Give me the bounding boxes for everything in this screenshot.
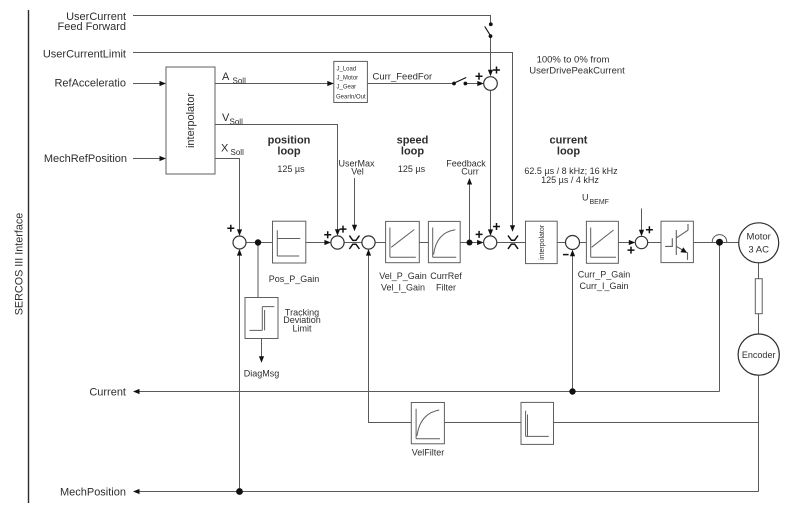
svg-text:125 µs: 125 µs — [277, 164, 305, 174]
svg-text:loop: loop — [401, 146, 424, 158]
svg-text:X: X — [221, 143, 229, 155]
block Vel_P_Gain — [379, 221, 427, 292]
arrow FeedbackCurr up — [467, 178, 472, 185]
svg-text:Soll: Soll — [231, 148, 245, 157]
svg-text:UserCurrentLimit: UserCurrentLimit — [43, 49, 126, 61]
arrow Curr_P_Gain out into bemf sum — [629, 240, 636, 245]
sum speed error — [362, 236, 375, 249]
switch Curr_FeedFor — [452, 78, 467, 86]
block interpolator 2 — [526, 221, 558, 263]
plus top sum left — [476, 73, 483, 80]
wire curr err sum to Curr_P_Gain — [579, 242, 586, 244]
wire MechPosition horizontal — [137, 491, 759, 493]
svg-text:Curr_P_Gain: Curr_P_Gain — [578, 270, 631, 280]
svg-text:SERCOS III Interface: SERCOS III Interface — [14, 213, 26, 316]
svg-text:VelFilter: VelFilter — [412, 448, 445, 458]
wire top sum down to current sum — [490, 90, 492, 230]
node current sensor — [716, 239, 723, 246]
wire V_Soll — [215, 125, 338, 231]
arrow Current left — [133, 389, 140, 394]
arrow U_BEMF down into bemf sum — [639, 230, 644, 237]
wire motor to resistor — [758, 263, 760, 279]
arrow into interpolator RefAcceleratio — [160, 81, 167, 86]
switch feedforward top — [485, 22, 493, 38]
wire resistor to encoder — [758, 314, 760, 334]
arrow X_Soll into pos sum — [237, 229, 242, 236]
sum bemf — [635, 236, 647, 248]
plus bemf sum upper right — [646, 226, 653, 233]
node current feedback branch — [569, 388, 575, 394]
block interpolator 1 — [166, 67, 215, 174]
svg-text:Soll: Soll — [230, 118, 244, 127]
arrow UserMaxVel into limiter — [352, 225, 357, 232]
wire encoder down — [758, 375, 760, 491]
arrow CurrRef out into curr cmd sum — [477, 240, 484, 245]
wire UserCurrentFeedForward top — [133, 16, 491, 23]
sum position — [233, 236, 246, 249]
svg-text:MechPosition: MechPosition — [60, 487, 126, 499]
svg-text:BEMF: BEMF — [590, 199, 609, 206]
current sensor arc — [712, 235, 726, 243]
node curr cmd branch — [467, 240, 473, 246]
arrow UserCurrentLimit down — [510, 225, 515, 232]
block VelFilter — [411, 403, 444, 458]
block J inertia — [334, 61, 368, 102]
plus bemf sum lower left — [628, 247, 635, 254]
svg-text:Limit: Limit — [292, 324, 312, 334]
plus vel sum top right — [340, 226, 347, 233]
wire curr cmd sum to limiter to interpolator2 — [497, 242, 526, 244]
wire bemf sum to power stage — [648, 242, 661, 244]
svg-text:Curr_I_Gain: Curr_I_Gain — [579, 281, 628, 291]
wire tracking to DiagMsg arrow — [261, 339, 263, 358]
block Pos_P_Gain — [269, 221, 320, 284]
svg-text:125 µs / 4 kHz: 125 µs / 4 kHz — [541, 175, 599, 185]
svg-text:Soll: Soll — [233, 77, 247, 86]
wire vel sum to vel limiter to speed sum — [344, 242, 362, 244]
minus curr err sum — [563, 254, 569, 256]
left border line — [28, 10, 30, 503]
arrow current feedback into curr err sum — [570, 250, 575, 257]
svg-text:Feed Forward: Feed Forward — [58, 21, 126, 33]
wire interpolator2 to curr err sum — [557, 242, 565, 244]
wire FeedbackCurr arrow line — [469, 184, 471, 243]
sum current command — [484, 236, 497, 249]
svg-text:J_Motor: J_Motor — [337, 76, 359, 82]
arrow feedforward into top sum from top — [488, 70, 493, 77]
arrow top sum line into curr cmd sum — [488, 229, 493, 236]
svg-text:J_Gear: J_Gear — [337, 85, 357, 91]
svg-text:Filter: Filter — [436, 282, 456, 292]
block power stage — [661, 221, 693, 262]
svg-text:CurrRef: CurrRef — [430, 271, 462, 281]
wire speed sum to Vel_P_Gain — [375, 242, 386, 244]
wire switch to sum arrow — [465, 83, 478, 85]
arrow V_Soll into vel sum — [335, 229, 340, 236]
block actual velocity (derivative) — [521, 402, 554, 444]
svg-text:J_Load: J_Load — [337, 67, 357, 73]
wire A_Soll — [215, 83, 334, 85]
arrow into J block — [327, 81, 334, 86]
plus before curr cmd sum — [476, 231, 483, 238]
arrow DiagMsg down — [259, 356, 264, 363]
limiter UserCurrentLimit — [508, 236, 518, 249]
arrow Curr_FeedFor into top sum — [477, 81, 484, 86]
wire current feedback horizontal — [137, 391, 720, 393]
encoder circle — [738, 334, 779, 375]
svg-text:MechRefPosition: MechRefPosition — [44, 153, 127, 165]
wire Pos_P_Gain out — [306, 242, 326, 244]
sum velocity command — [331, 236, 344, 249]
block CurrRef Filter — [428, 221, 462, 292]
arrow position feedback into pos sum — [237, 249, 242, 256]
wire power stage to motor — [693, 242, 738, 244]
svg-text:Vel_I_Gain: Vel_I_Gain — [381, 282, 425, 292]
svg-text:interpolator: interpolator — [185, 93, 197, 148]
svg-text:Vel_P_Gain: Vel_P_Gain — [379, 271, 427, 281]
svg-text:A: A — [222, 71, 230, 83]
wire Curr_FeedFor to switch — [367, 83, 452, 85]
svg-text:Curr: Curr — [461, 167, 479, 177]
wire Vel_P_Gain to CurrRef — [419, 242, 428, 244]
svg-text:GearIn/Out: GearIn/Out — [336, 95, 366, 101]
svg-text:Motor: Motor — [747, 232, 771, 243]
svg-text:Encoder: Encoder — [742, 350, 776, 360]
wire MechRefPosition in — [133, 158, 161, 160]
limiter UserMaxVel — [349, 236, 359, 249]
plus before vel sum — [324, 231, 331, 238]
arrow velocity feedback into speed sum — [366, 249, 371, 256]
wire pos sum to Pos_P_Gain — [246, 242, 273, 244]
svg-text:Pos_P_Gain: Pos_P_Gain — [269, 274, 320, 284]
sum current error — [566, 236, 580, 250]
wire position feedback up — [239, 255, 241, 492]
wire current fb up to sum — [572, 256, 574, 392]
svg-text:DiagMsg: DiagMsg — [244, 369, 280, 379]
plus top sum right — [493, 67, 500, 74]
svg-text:RefAcceleratio: RefAcceleratio — [54, 78, 126, 90]
block Curr_P_Gain — [578, 221, 631, 291]
sum top feedforward — [484, 77, 498, 91]
wire switch to top sum — [490, 36, 492, 70]
arrow Pos_P_Gain out into vel sum — [324, 240, 331, 245]
wire CurrRef out to curr cmd sum — [460, 242, 478, 244]
wire RefAcceleratio in — [133, 83, 161, 85]
node MechPosition branch — [236, 488, 243, 495]
svg-text:U: U — [582, 193, 589, 203]
plus curr cmd sum top right — [493, 223, 500, 230]
svg-text:Vel: Vel — [351, 167, 364, 177]
arrow into interpolator MechRefPosition — [160, 156, 167, 161]
svg-text:100% to 0% from: 100% to 0% from — [537, 55, 610, 66]
block Tracking Deviation Limit — [245, 298, 321, 339]
svg-text:loop: loop — [277, 146, 300, 158]
wire U_BEMF arrow line — [641, 209, 643, 231]
node after pos sum — [255, 239, 261, 245]
arrow MechPosition left — [133, 489, 140, 494]
plus pos sum — [227, 225, 234, 232]
motor circle — [739, 223, 779, 263]
svg-text:loop: loop — [557, 146, 580, 158]
wire X_Soll — [215, 159, 240, 231]
svg-text:Curr_FeedFor: Curr_FeedFor — [373, 72, 433, 83]
wire UserCurrentLimit — [133, 53, 513, 227]
svg-text:125 µs: 125 µs — [398, 164, 426, 174]
wire current sensor down — [719, 243, 721, 392]
svg-text:interpolator: interpolator — [539, 224, 546, 260]
svg-text:Current: Current — [89, 387, 126, 399]
wire velocity feedback — [369, 255, 759, 423]
wire branch to tracking block — [257, 244, 259, 298]
wire Curr_P_Gain to bemf sum — [618, 242, 630, 244]
svg-text:3 AC: 3 AC — [748, 245, 769, 256]
svg-text:UserDrivePeakCurrent: UserDrivePeakCurrent — [529, 66, 625, 77]
resistor (brake) — [755, 279, 762, 314]
wire UserMaxVel arrow line — [354, 178, 356, 226]
